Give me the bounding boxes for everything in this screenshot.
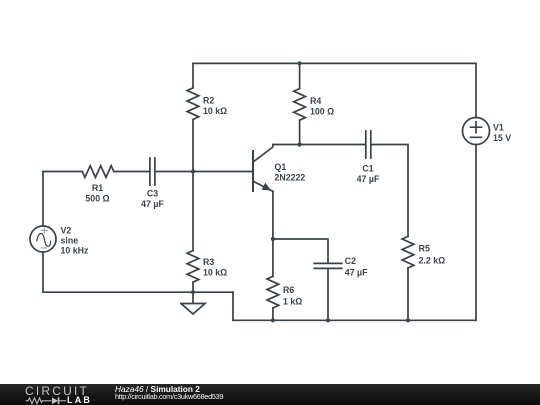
wire ground rail <box>43 291 233 293</box>
svg-text:R5: R5 <box>419 243 430 253</box>
svg-text:15 V: 15 V <box>493 133 511 143</box>
wire V1 top drop <box>475 63 477 117</box>
transistor Q1 collector lead <box>254 145 273 162</box>
wire to R1 <box>43 171 82 173</box>
V2 plus/minus (light) <box>41 227 48 248</box>
wire collector to C1 (through R4 node) <box>273 144 365 146</box>
svg-text:47 µF: 47 µF <box>357 174 380 184</box>
wire R3 to ground rail <box>192 282 194 292</box>
wire R4 bottom <box>299 120 301 144</box>
svg-text:C1: C1 <box>362 163 373 173</box>
footer bar <box>0 384 540 405</box>
svg-text:Q1: Q1 <box>275 162 287 172</box>
transistor Q1 base bar <box>252 151 254 191</box>
svg-text:V1: V1 <box>493 123 504 133</box>
ground <box>181 292 205 314</box>
wire bottom-left riser <box>232 292 234 320</box>
voltage source V1 <box>463 118 490 145</box>
resistor R2 <box>187 88 199 120</box>
wire R1 to C3 <box>114 171 150 173</box>
node collector <box>298 142 302 146</box>
svg-text:LAB: LAB <box>67 395 92 405</box>
wire V1 bottom drop <box>475 145 477 321</box>
footer text line 1 <box>115 384 200 394</box>
svg-text:47 µF: 47 µF <box>345 267 368 277</box>
node R5 bottom <box>406 318 410 322</box>
svg-text:10 kΩ: 10 kΩ <box>203 268 227 278</box>
wire C1 to R5 corner <box>371 145 408 237</box>
capacitor C3 <box>150 158 155 185</box>
wire V2 bottom stem <box>42 252 44 292</box>
wire R4 branch top <box>299 63 301 88</box>
transistor Q1 emitter lead <box>254 182 273 192</box>
wire R2 to R3 (through base node) <box>192 120 194 251</box>
capacitor C2 <box>314 263 342 268</box>
V2 sine symbol <box>37 233 51 246</box>
svg-text:C2: C2 <box>345 256 356 266</box>
svg-text:47 µF: 47 µF <box>141 199 164 209</box>
svg-text:C3: C3 <box>147 189 158 199</box>
resistor R3 <box>187 251 199 283</box>
node ground <box>191 290 195 294</box>
resistor R4 <box>294 89 306 121</box>
svg-text:1 kΩ: 1 kΩ <box>283 296 302 306</box>
svg-text:V2: V2 <box>61 225 72 235</box>
V1 polarity marks <box>471 122 482 138</box>
svg-text:10 kΩ: 10 kΩ <box>203 106 227 116</box>
svg-text:R3: R3 <box>203 257 214 267</box>
svg-text:sine: sine <box>61 235 79 245</box>
node base <box>191 169 195 173</box>
wire emitter down to R6 <box>272 191 274 276</box>
svg-text:R4: R4 <box>310 96 321 106</box>
svg-text:R6: R6 <box>283 285 294 295</box>
wire emitter node to C2 <box>273 239 328 263</box>
wire C2 bottom <box>327 269 329 321</box>
capacitor C1 <box>366 131 371 158</box>
svg-text:500 Ω: 500 Ω <box>85 193 109 203</box>
resistor R1 <box>82 166 114 178</box>
resistor R5 <box>402 236 414 268</box>
wire R5 bottom <box>407 268 409 320</box>
wire R2 branch top <box>192 63 194 88</box>
footer text line 2 <box>115 392 223 401</box>
wire bottom rail <box>233 319 476 321</box>
node emitter <box>271 237 275 241</box>
node R6 bottom <box>271 318 275 322</box>
wire V2 top stem <box>42 172 44 227</box>
wire C3 to Q1 base (through node) <box>156 171 253 173</box>
resistor R6 <box>267 276 279 308</box>
CircuitLab logo <box>0 384 110 405</box>
svg-text:R1: R1 <box>92 183 103 193</box>
svg-text:10 kHz: 10 kHz <box>61 245 89 255</box>
node C2 bottom <box>326 318 330 322</box>
transistor Q1 emitter arrow <box>262 183 270 190</box>
wire top rail <box>193 62 476 64</box>
svg-text:R2: R2 <box>203 95 214 105</box>
svg-text:2.2 kΩ: 2.2 kΩ <box>419 255 446 265</box>
voltage source V2 <box>30 226 56 252</box>
node R2 top rail junction <box>298 61 302 65</box>
svg-text:2N2222: 2N2222 <box>275 172 306 182</box>
wire R6 bottom <box>272 308 274 320</box>
svg-text:100 Ω: 100 Ω <box>310 107 334 117</box>
